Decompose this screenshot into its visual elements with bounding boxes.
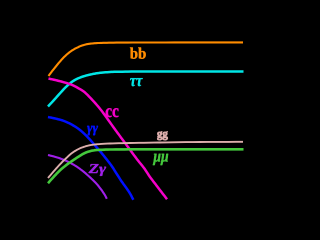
bb label xyxy=(130,47,146,58)
gg label xyxy=(157,131,167,140)
gammagamma label xyxy=(87,126,98,135)
tautau label xyxy=(130,78,143,86)
Zgamma label xyxy=(89,164,107,176)
tautau curve (cyan) xyxy=(48,72,244,107)
gammagamma curve (blue) xyxy=(48,117,133,200)
mumu curve (green) xyxy=(48,149,244,183)
cc curve (magenta) xyxy=(49,79,168,200)
cc label xyxy=(106,108,119,117)
Zgamma curve (purple) xyxy=(48,155,107,199)
mumu label xyxy=(153,154,168,165)
bb curve (orange) xyxy=(49,42,244,76)
gg curve (tan) xyxy=(48,142,243,178)
